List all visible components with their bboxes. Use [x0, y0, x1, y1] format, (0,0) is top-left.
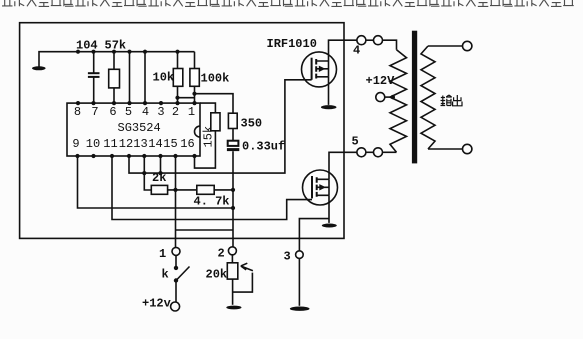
wire Q2 source tap to node 3	[299, 219, 329, 251]
svg-text:7: 7	[91, 105, 98, 119]
svg-text:16: 16	[180, 137, 194, 151]
IC notch	[194, 126, 200, 137]
wire secondary top terminal	[428, 45, 463, 47]
svg-text:14: 14	[148, 137, 162, 151]
wire 10k-100k bottoms	[178, 97, 195, 99]
ground G2 under Q1	[321, 105, 337, 109]
resistor R4 15k	[211, 113, 220, 131]
svg-text:12: 12	[119, 137, 133, 151]
label output (Chinese)	[441, 95, 463, 106]
node junction dots on top bus	[76, 50, 180, 54]
wire pot to ground	[232, 279, 234, 305]
transistor Q2 lower MOSFET	[303, 170, 338, 205]
wire gate bus A pins 12,13,14 to upper gate	[129, 80, 312, 173]
svg-text:4. 7k: 4. 7k	[194, 195, 230, 209]
capacitor C1 104	[88, 52, 100, 103]
wire pin11 to lower gate	[112, 156, 312, 220]
resistor R1 57k	[109, 52, 120, 103]
svg-text:20k: 20k	[206, 268, 228, 282]
resistor R5 350	[228, 113, 237, 128]
svg-text:0.33uf: 0.33uf	[242, 140, 285, 154]
wire link node1-node2 columns	[176, 229, 234, 231]
svg-text:5: 5	[352, 135, 359, 149]
wire 100k bottom to 350	[195, 94, 234, 114]
svg-text:104: 104	[76, 39, 98, 53]
ground G1 top-left	[32, 66, 46, 70]
resistor R3 100k	[190, 52, 199, 103]
resistor R6 2k	[151, 185, 167, 194]
svg-text:15k: 15k	[202, 126, 216, 148]
wire secondary bottom terminal	[428, 148, 463, 150]
wire IC top edge extension to 15k	[200, 103, 215, 113]
svg-text:9: 9	[72, 137, 79, 151]
svg-text:15: 15	[163, 137, 177, 151]
svg-text:2: 2	[172, 105, 179, 119]
svg-text:10: 10	[86, 137, 100, 151]
svg-text:6: 6	[109, 105, 116, 119]
resistor R2 10k	[173, 52, 183, 103]
pin numbers bottom row	[72, 137, 194, 151]
caption text clipped at top	[2, 0, 574, 6]
wire Q2 source to ground	[328, 195, 330, 223]
svg-text:4: 4	[142, 105, 149, 119]
transformer T1 secondary winding	[421, 46, 435, 149]
svg-text:+12V: +12V	[366, 74, 396, 88]
svg-text:350: 350	[241, 117, 263, 131]
wire Q1 drain to node 4	[329, 40, 357, 61]
svg-text:1: 1	[159, 247, 166, 261]
node 3 terminal	[296, 251, 304, 259]
pin junction dots on IC top edge	[76, 101, 197, 105]
svg-text:13: 13	[133, 137, 147, 151]
resistor R7 4.7k	[197, 185, 214, 194]
svg-text:2: 2	[218, 247, 225, 261]
svg-text:10k: 10k	[153, 71, 175, 85]
wire node3 to ground	[298, 258, 300, 305]
wire node1 column pin15	[175, 156, 177, 247]
wire Q2 drain to node 5	[329, 152, 357, 179]
pin junction dots on IC bottom edge	[75, 154, 196, 158]
wire top bus	[39, 52, 195, 67]
svg-text:IRF1010: IRF1010	[267, 37, 317, 51]
wire 2k to 4.7k	[168, 189, 197, 191]
wire pin9 to node2 column	[78, 156, 234, 208]
svg-text:2k: 2k	[152, 171, 166, 185]
wire pin13 to 2k	[144, 156, 151, 190]
svg-text:3: 3	[157, 105, 164, 119]
svg-text:1: 1	[188, 105, 195, 119]
wire pin14 stub	[160, 156, 162, 173]
node 2 terminal	[228, 247, 236, 255]
ground G5 under node3	[290, 307, 310, 311]
transformer T1 core	[412, 31, 417, 164]
wire 15k bottom to pin16	[195, 131, 216, 168]
svg-text:k: k	[162, 268, 169, 282]
pin numbers top row	[74, 105, 195, 119]
switch k	[175, 255, 177, 266]
wire Q1 source to ground	[328, 77, 330, 105]
ground G3 under Q2	[322, 224, 337, 228]
svg-text:11: 11	[103, 137, 117, 151]
wire 4.7k to node2 column	[214, 189, 233, 191]
wire node2 column	[232, 151, 234, 246]
svg-text:SG3524: SG3524	[118, 121, 161, 135]
transistor Q1 upper MOSFET	[302, 52, 337, 87]
wire 350 to cap	[232, 129, 234, 141]
svg-text:100k: 100k	[201, 72, 230, 86]
svg-text:4: 4	[353, 44, 360, 58]
ground G4 under pot	[226, 306, 241, 310]
IC U1 SG3524 body	[67, 103, 200, 156]
svg-text:+12v: +12v	[142, 297, 171, 311]
wire to +12v	[175, 282, 177, 302]
wire node2 to pot	[231, 255, 233, 263]
wire pin4 to bus	[144, 52, 146, 103]
svg-text:8: 8	[74, 105, 81, 119]
svg-text:57k: 57k	[105, 39, 127, 53]
svg-text:3: 3	[284, 250, 291, 264]
wire pin5 to bus	[129, 52, 131, 103]
transformer T1 primary winding	[390, 50, 407, 152]
outer frame box	[20, 23, 344, 239]
node 1 terminal	[172, 247, 180, 255]
capacitor C2 0.33uf	[228, 141, 239, 146]
potentiometer 20k	[227, 263, 238, 279]
+12v supply terminal	[171, 302, 180, 311]
svg-text:5: 5	[125, 105, 132, 119]
